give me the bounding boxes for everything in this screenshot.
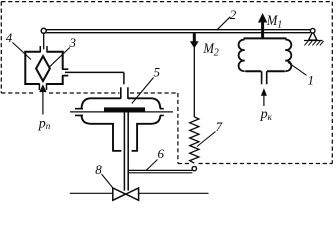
svg-text:7: 7 bbox=[216, 119, 223, 134]
svg-text:3: 3 bbox=[69, 35, 77, 50]
fixed support pin circle bbox=[310, 28, 315, 33]
leader line label 5 bbox=[132, 78, 154, 104]
fixed support triangle bbox=[309, 32, 317, 41]
wire lever to relay bbox=[43, 33, 45, 49]
leader line label 2 bbox=[217, 17, 230, 30]
actuator 5 upper flanges bbox=[75, 108, 164, 110]
svg-text:2: 2 bbox=[230, 7, 237, 22]
p_k arrowhead bbox=[262, 90, 267, 96]
dashed enclosure mid vertical bbox=[177, 93, 179, 164]
dashed enclosure mid horizontal bbox=[1, 92, 178, 94]
relay box U4 top wall bbox=[24, 51, 63, 53]
node circle spring bottom bbox=[192, 166, 196, 170]
relay box bottom wall bbox=[24, 83, 63, 85]
M2 arrow bbox=[193, 33, 196, 42]
relay box left wall bbox=[24, 51, 26, 85]
relay box bottom port ticks bbox=[39, 83, 46, 90]
p_p arrowhead bbox=[40, 85, 46, 91]
actuator 5 midline bbox=[70, 111, 173, 113]
valve 8 bowtie bbox=[113, 188, 139, 200]
lever left pivot circle bbox=[41, 28, 46, 33]
leader line label 4 bbox=[12, 42, 31, 59]
actuator 5 neck feet bbox=[112, 150, 138, 152]
bellows 1 bottom plates bbox=[245, 70, 285, 72]
relay box top port ticks bbox=[40, 46, 47, 53]
fixed support hatching bbox=[304, 41, 323, 45]
bottom pipe line bbox=[70, 192, 209, 194]
throttle diamond 3 bbox=[36, 56, 50, 81]
svg-text:2: 2 bbox=[214, 48, 219, 59]
bellows 1 top plate bbox=[244, 37, 287, 39]
svg-text:4: 4 bbox=[6, 30, 13, 45]
lever beam 2 bbox=[46, 30, 310, 33]
bellows 1 right convolutions bbox=[285, 40, 291, 72]
svg-text:1: 1 bbox=[308, 72, 315, 87]
leader line label 1 bbox=[288, 62, 307, 75]
leader line label 7 bbox=[197, 132, 216, 147]
svg-text:6: 6 bbox=[158, 146, 165, 161]
svg-text:5: 5 bbox=[154, 65, 161, 80]
wire down to actuator bbox=[123, 72, 125, 84]
nozzle output line bbox=[65, 71, 124, 73]
dashed enclosure top bbox=[1, 1, 332, 3]
spring 7 bbox=[190, 117, 199, 163]
actuator 5 inlet ticks bbox=[121, 87, 128, 99]
valve stem bbox=[124, 112, 128, 191]
actuator 5 lower flanges bbox=[75, 114, 164, 116]
M1 arrow bbox=[261, 22, 264, 39]
dashed enclosure left bbox=[0, 2, 2, 93]
feedback line 6 bbox=[128, 170, 192, 172]
relay box right port flares bbox=[62, 69, 68, 75]
dashed enclosure right bbox=[331, 2, 333, 164]
bellows 1 inlet stubs bbox=[262, 71, 267, 84]
p_p arrow shaft bbox=[42, 91, 44, 115]
leader line label 3 bbox=[50, 48, 70, 67]
bellows 1 left convolutions bbox=[239, 40, 245, 72]
actuator 5 diaphragm bar bbox=[104, 107, 145, 112]
svg-text:8: 8 bbox=[95, 162, 102, 177]
fixed support ground line bbox=[304, 40, 323, 42]
actuator 5 top shell bbox=[82, 98, 161, 108]
leader line label 6 bbox=[146, 160, 158, 171]
svg-text:1: 1 bbox=[277, 19, 282, 30]
actuator 5 bottom shell bbox=[82, 115, 161, 123]
dashed enclosure bottom right bbox=[178, 163, 332, 165]
p_k arrow shaft bbox=[263, 95, 265, 107]
leader line label 8 bbox=[102, 174, 114, 189]
actuator 5 neck walls bbox=[113, 123, 137, 151]
relay box right wall bbox=[62, 51, 64, 85]
wire M2 to spring bbox=[193, 47, 195, 117]
